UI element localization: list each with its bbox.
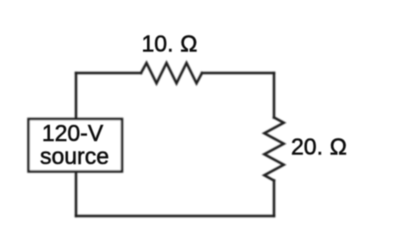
wire top-left horizontal bbox=[76, 72, 141, 75]
svg-text:10. Ω: 10. Ω bbox=[142, 31, 198, 57]
wire right vertical upper bbox=[273, 73, 276, 118]
wire right vertical lower bbox=[273, 181, 276, 217]
svg-text:20. Ω: 20. Ω bbox=[291, 134, 347, 160]
wire left vertical lower (source to bottom wire) bbox=[75, 171, 78, 216]
svg-text:source: source bbox=[40, 143, 109, 169]
resistor R2 20 ohm (vertical zigzag) bbox=[264, 118, 284, 181]
voltage source box bbox=[29, 119, 123, 172]
wire left vertical upper (source to top wire) bbox=[75, 73, 78, 119]
resistor R1 10 ohm (horizontal zigzag) bbox=[141, 63, 202, 83]
wire top-right horizontal bbox=[202, 72, 274, 75]
wire bottom horizontal bbox=[76, 215, 274, 218]
